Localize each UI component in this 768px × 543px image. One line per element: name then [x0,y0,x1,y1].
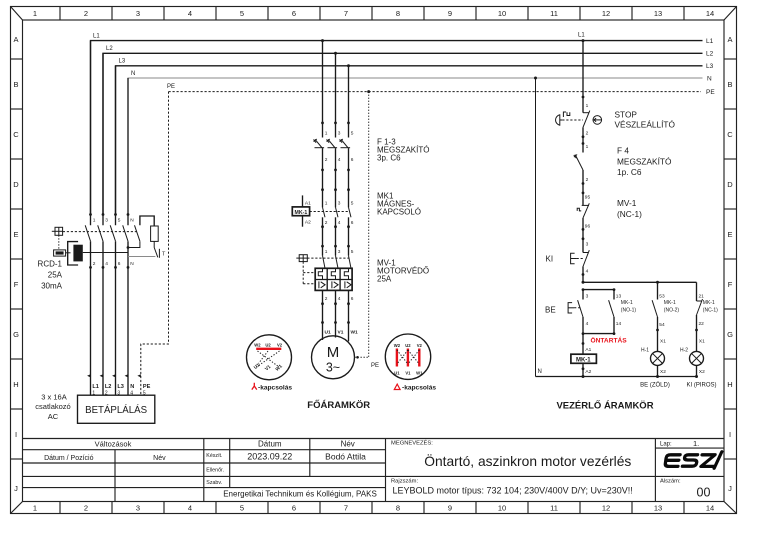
svg-text:csatlakozó: csatlakozó [35,402,70,411]
motor protector MV-1 pole 3 upper [347,245,354,269]
svg-text:T: T [162,252,166,258]
svg-text:1: 1 [325,249,328,255]
svg-text:L3: L3 [117,384,124,390]
svg-text:13: 13 [616,294,622,300]
svg-text:BETÁPLÁLÁS: BETÁPLÁLÁS [85,405,147,416]
svg-text:Dátum: Dátum [258,439,282,448]
wire self holding loop bottom [582,332,616,335]
svg-text:STOP: STOP [615,110,638,120]
RCD-1 test button [52,227,63,235]
svg-text:3 x 16A: 3 x 16A [41,393,66,402]
MK-1 NO-1 self holding contact [609,290,637,334]
emergency stop mushroom head [556,112,583,125]
node L1 tap control circuit [578,33,585,43]
svg-text:2: 2 [84,9,88,18]
svg-text:4: 4 [188,504,192,513]
wire main circuit phase 2 upper [334,53,341,137]
svg-text:N: N [707,75,712,82]
svg-text:(NC-1): (NC-1) [617,209,642,219]
emergency stop release rotate symbol [593,116,602,125]
circuit breaker F1-3 pole 3 [340,139,354,190]
circuit breaker F4 [574,144,589,194]
title block outline [23,439,725,502]
svg-text:7: 7 [344,504,348,513]
svg-text:Alszám:: Alszám: [660,479,681,485]
RCD-1 dotted link button to relay [58,235,60,249]
svg-text:3: 3 [136,9,140,18]
svg-text:11: 11 [550,9,558,18]
svg-text:MK-1: MK-1 [621,300,633,306]
svg-text:U2: U2 [405,343,411,348]
svg-text:J: J [728,484,732,493]
svg-text:13: 13 [654,9,662,18]
svg-text:KAPCSOLÓ: KAPCSOLÓ [377,208,421,217]
svg-text:B: B [727,80,732,89]
RCD-1 residual current device pole 1 [85,41,96,396]
title block Dátum Név headers [258,439,355,448]
motor M 3~ [312,336,355,379]
svg-text:2023.09.22: 2023.09.22 [247,452,292,462]
svg-text:LEYBOLD motor típus: 732 104;: LEYBOLD motor típus: 732 104; 230V/400V … [393,486,633,496]
corner diagonal bottom-right [724,502,737,514]
node PE tap motor [367,90,370,93]
svg-text:12: 12 [602,9,610,18]
svg-text:MK-1: MK-1 [703,300,715,306]
motor protector MV-1 body box [315,268,352,290]
corner diagonal bottom-left [11,502,23,514]
contactor MK1 main contact pole 1 [321,188,328,246]
wire main circuit phase 1 upper [321,41,328,138]
svg-text:Lap:: Lap: [660,441,672,447]
svg-text:BE: BE [545,306,556,315]
svg-text:4: 4 [338,220,341,226]
svg-text:D: D [727,180,733,189]
RCD-1 test branch blade and hook to resistor [127,216,155,249]
grid column dividers top strip [60,7,684,21]
svg-text:L1: L1 [92,384,99,390]
wire L3 rail [116,59,714,214]
svg-text:3: 3 [338,249,341,255]
svg-text:2: 2 [325,296,328,302]
svg-text:PE: PE [706,89,715,96]
svg-text:J: J [14,484,18,493]
grid column numbers top [33,9,714,18]
MV-1 auxiliary NC contact 95 96 [577,193,590,240]
svg-text:A: A [727,35,732,44]
indicator lamp H-2 [680,348,705,379]
grid row letters left [13,35,19,493]
svg-text:1: 1 [325,131,328,137]
svg-text:Változások: Változások [95,440,132,449]
svg-text:54: 54 [659,322,665,328]
svg-text:F: F [728,280,733,289]
label MV-1 MOTORVÉDŐ 25A [377,259,429,284]
RCD-1 trip coil black box [73,245,82,262]
svg-text:5: 5 [351,249,354,255]
circuit breaker F1-3 pole 2 [327,139,341,190]
motor protector MV-1 pole 2 upper [334,245,341,269]
svg-text:9: 9 [448,9,452,18]
title block Rajzszám [391,479,633,496]
contactor MK1 main contact pole 2 [334,188,341,246]
svg-text:V1: V1 [264,364,272,372]
svg-text:A2: A2 [305,219,311,225]
node L2 tap main circuit [334,52,337,55]
star connection circle [247,335,292,380]
svg-text:KI: KI [546,254,554,263]
corner diagonal top-right [724,7,737,21]
wire main circuit phase 3 upper [347,66,354,138]
svg-text:4: 4 [188,9,192,18]
labels BE (ZÖLD) KI (PIROS) [640,382,716,389]
svg-text:MK-1: MK-1 [295,210,308,216]
svg-text:W2: W2 [394,343,401,348]
wire control L1 drop [582,41,589,113]
svg-text:2: 2 [325,157,328,163]
MV-1 magnetic trip I> symbols [319,281,351,288]
svg-text:13: 13 [654,504,662,513]
svg-text:L1: L1 [706,38,714,45]
svg-text:U2: U2 [265,342,271,347]
grid row dividers left strip [11,59,23,459]
svg-text:U1: U1 [394,370,400,375]
svg-text:L1: L1 [93,34,100,40]
svg-text:4: 4 [105,261,108,267]
svg-text:A1: A1 [585,347,591,353]
svg-text:8: 8 [396,9,400,18]
svg-text:3: 3 [338,131,341,137]
svg-text:21: 21 [699,294,705,300]
wire control N vertical [536,78,542,377]
svg-text:4: 4 [586,321,589,327]
svg-text:Dátum / Pozíció: Dátum / Pozíció [44,455,94,462]
svg-text:1: 1 [586,103,589,109]
svg-text:6: 6 [118,261,121,267]
svg-text:(NC-1): (NC-1) [703,308,718,314]
svg-text:2: 2 [586,177,589,183]
label STOP VÉSZLEÁLLÍTÓ [615,110,676,130]
delta connection circle [385,334,430,379]
svg-text:1.: 1. [693,439,699,448]
indicator lamp H-1 [641,348,666,377]
svg-text:X1: X1 [699,339,705,345]
svg-text:3: 3 [586,294,589,300]
svg-text:L2: L2 [105,384,112,390]
wire L2 rail [103,46,714,214]
svg-text:ÖNTARTÁS: ÖNTARTÁS [591,335,628,344]
svg-text:L3: L3 [119,59,126,65]
RCD-1 small relay box [54,250,71,256]
svg-text:6: 6 [292,9,296,18]
eszi logo [665,452,722,468]
svg-text:2: 2 [325,220,328,226]
svg-text:1: 1 [586,144,589,150]
svg-text:4: 4 [586,269,589,275]
svg-text:1: 1 [325,201,328,207]
svg-text:Készít.: Készít. [206,453,222,459]
svg-text:L2: L2 [706,51,714,58]
svg-text:E: E [13,230,18,239]
svg-text:M: M [327,344,340,361]
svg-text:95: 95 [585,195,591,201]
svg-text:10: 10 [498,9,506,18]
wire N rail [128,71,712,214]
RCD-1 pole 3 [110,66,121,395]
grid row dividers right strip [724,59,737,459]
title block date and name [247,451,366,461]
RCD-1 labels [38,260,63,291]
svg-text:2: 2 [93,261,96,267]
svg-text:Bodó Attila: Bodó Attila [325,451,366,461]
svg-text:V1: V1 [338,329,344,335]
svg-text:F: F [14,280,19,289]
corner diagonal top-left [11,7,23,21]
svg-text:PE: PE [167,84,175,90]
svg-text:25A: 25A [48,271,63,280]
svg-text:N: N [130,384,134,390]
svg-text:B: B [13,80,18,89]
BE pushbutton NO [545,290,589,334]
svg-text:MEGNEVEZÉS:: MEGNEVEZÉS: [391,440,433,447]
contactor coil MK-1 control [571,334,597,377]
svg-text:Név: Név [153,455,166,462]
node L1 tap main circuit [321,39,324,42]
title block middle section labels [206,453,224,486]
motor protector MV-1 pole 1 upper [321,245,328,269]
svg-text:1: 1 [33,9,37,18]
MV-1 test button and dashed links [296,255,349,284]
svg-text:14: 14 [616,321,622,327]
title block Alszám [660,479,710,500]
KI pushbutton NC [546,239,590,282]
MV-1 thermal elements [318,268,348,279]
svg-text:Szabv.: Szabv. [206,480,222,486]
RCD-1 gray test return wire [128,256,155,258]
svg-text:3: 3 [586,241,589,247]
svg-text:3~: 3~ [326,361,340,375]
svg-text:3p. C6: 3p. C6 [377,154,401,163]
svg-text:MEGSZAKÍTÓ: MEGSZAKÍTÓ [617,156,672,166]
svg-text:RCD-1: RCD-1 [38,260,63,269]
svg-text:PE: PE [371,363,379,369]
svg-text:U1: U1 [253,362,261,370]
wire BE branch split [582,288,616,291]
grid column numbers bottom [33,504,714,513]
svg-text:X2: X2 [699,369,705,375]
circuit breaker F1-3 pole 1 [314,139,328,190]
svg-text:3: 3 [105,218,108,224]
BETÁPLÁLÁS terminal labels [92,384,150,390]
svg-text:N: N [130,218,134,224]
contactor MK1 coil symbol with A1 A2 [292,195,311,226]
svg-text:G: G [727,330,733,339]
contactor MK1 main contact pole 3 [347,188,354,246]
svg-text:1: 1 [33,504,37,513]
svg-text:6: 6 [351,220,354,226]
svg-text:H: H [727,380,732,389]
svg-text:-kapcsolás: -kapcsolás [258,385,292,392]
label MK1 MÁGNES-KAPCSOLÓ [377,192,421,217]
svg-text:6: 6 [292,504,296,513]
RCD-1 pole N [123,78,135,395]
svg-text:C: C [13,130,19,139]
svg-text:AC: AC [48,412,59,421]
svg-text:E: E [727,230,732,239]
svg-text:F 4: F 4 [617,145,629,155]
svg-text:5: 5 [240,504,244,513]
label F 1-3 MEGSZAKÍTÓ 3p. C6 [377,138,429,163]
star connection red label [252,383,293,392]
RCD-1 pole 2 [98,53,109,395]
title block Változások section [44,440,166,462]
svg-text:A: A [13,35,18,44]
node L3 tap main circuit [347,64,350,67]
svg-text:12: 12 [602,504,610,513]
svg-text:W1: W1 [274,363,283,372]
wire L1 rail [91,34,714,214]
svg-text:H-2: H-2 [680,348,688,354]
title block MEGNEVEZÉS [391,440,631,469]
svg-text:Öntartó, aszinkron motor vezér: Öntartó, aszinkron motor vezérlés [424,452,631,469]
RCD-1 T test contact [154,241,166,257]
MK-1 NO-2 contact lamp H-1 branch [652,281,679,352]
svg-text:VÉSZLEÁLLÍTÓ: VÉSZLEÁLLÍTÓ [615,120,676,130]
svg-text:VEZÉRLŐ ÁRAMKÖR: VEZÉRLŐ ÁRAMKÖR [556,400,653,412]
svg-text:W2: W2 [254,342,261,347]
svg-text:L2: L2 [106,46,113,52]
svg-text:A1: A1 [305,200,311,206]
svg-text:N: N [130,261,134,267]
wire PE rail dashed [167,84,715,96]
contactor MK1 linkage dashed [310,211,349,213]
title block Lap [660,439,699,448]
svg-text:N: N [538,369,542,375]
svg-text:4: 4 [338,296,341,302]
svg-text:(NO-1): (NO-1) [621,308,637,314]
svg-text:Ellenőr.: Ellenőr. [206,468,224,474]
svg-text:MV-1: MV-1 [617,198,637,208]
svg-text:Rajzszám:: Rajzszám: [391,479,418,485]
svg-text:5: 5 [351,131,354,137]
svg-text:3: 3 [338,201,341,207]
motor terminal wires U1 V1 W1 [321,321,358,341]
svg-text:W1: W1 [416,370,423,375]
grid column dividers bottom strip [60,502,684,514]
svg-text:10: 10 [498,504,506,513]
svg-text:22: 22 [699,321,705,327]
svg-text:G: G [13,330,19,339]
svg-text:A2: A2 [585,369,591,375]
RCD-1 test resistor [151,226,159,241]
svg-text:D: D [13,180,19,189]
svg-text:5: 5 [351,201,354,207]
BETÁPLÁLÁS terminal ticks [87,374,141,377]
svg-text:14: 14 [706,9,714,18]
node bus junction under KI [582,281,585,284]
svg-text:7: 7 [344,9,348,18]
svg-text:25A: 25A [377,275,392,284]
svg-text:96: 96 [585,223,591,229]
svg-text:V2: V2 [417,343,423,348]
svg-text:X2: X2 [660,369,666,375]
svg-text:MK-1: MK-1 [664,300,676,306]
wire lamp branch bus [583,281,697,283]
motor PE dotted connection [355,92,380,369]
svg-text:I: I [15,430,17,439]
svg-text:5: 5 [118,218,121,224]
svg-text:W1: W1 [351,329,359,335]
svg-text:N: N [131,71,135,77]
emergency stop STOP VÉSZLEÁLLÍTÓ contact [582,111,590,153]
delta connection red label [394,384,436,391]
svg-text:5: 5 [240,9,244,18]
svg-text:KI (PIROS): KI (PIROS) [686,383,716,389]
svg-text:MK-1: MK-1 [576,358,591,364]
svg-text:PE: PE [143,384,151,390]
svg-text:Energetikai Technikum és Kollé: Energetikai Technikum és Kollégium, PAKS [223,490,377,499]
wire N return bus bottom [536,375,697,378]
svg-text:I: I [729,430,731,439]
svg-text:L1: L1 [578,33,585,39]
svg-text:C: C [727,130,733,139]
svg-text:6: 6 [351,157,354,163]
svg-text:6: 6 [351,296,354,302]
grid row letters right [727,35,733,493]
svg-text:-kapcsolás: -kapcsolás [402,385,436,392]
svg-text:H: H [13,380,18,389]
RCD-1 trip wire to N pole [83,252,128,254]
svg-text:14: 14 [706,504,714,513]
label MV-1 (NC-1) [617,198,642,219]
svg-text:V1: V1 [405,370,411,375]
svg-text:2: 2 [84,504,88,513]
svg-text:3: 3 [136,504,140,513]
MV-1 lower terminals [321,290,354,322]
svg-text:2: 2 [586,131,589,137]
svg-text:H-1: H-1 [641,348,649,354]
svg-text:1p. C6: 1p. C6 [617,167,642,177]
svg-text:U1: U1 [325,329,331,335]
svg-text:9: 9 [448,504,452,513]
svg-text:1: 1 [93,218,96,224]
svg-text:Név: Név [341,439,355,448]
svg-text:(NO-2): (NO-2) [664,308,680,314]
wire PE feeder dashed path [141,92,169,396]
label 3 x 16A csatlakozó AC [35,393,70,422]
svg-text:8: 8 [396,504,400,513]
svg-text:00: 00 [697,485,711,499]
svg-text:4: 4 [338,157,341,163]
svg-text:BE (ZÖLD): BE (ZÖLD) [640,382,670,389]
RCD-1 current transformer core [68,242,78,265]
svg-text:53: 53 [659,294,665,300]
svg-text:X1: X1 [660,339,666,345]
BETÁPLÁLÁS supply box [78,395,155,423]
RCD-1 mechanical link dashed [63,231,137,233]
svg-text:11: 11 [550,504,558,513]
label F 4 MEGSZAKÍTÓ 1p. C6 [617,145,672,177]
svg-text:V2: V2 [277,342,283,347]
svg-text:FŐÁRAMKÖR: FŐÁRAMKÖR [307,399,370,411]
node N tap control circuit [534,77,537,80]
svg-text:L3: L3 [706,63,714,70]
svg-text:30mA: 30mA [41,282,63,291]
MK-1 NC-1 contact lamp H-2 branch [695,282,718,351]
